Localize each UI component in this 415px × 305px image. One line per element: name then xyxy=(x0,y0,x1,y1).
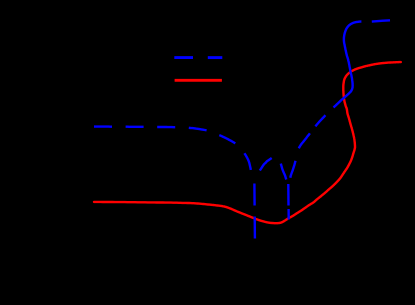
blue dashed curve xyxy=(94,20,390,238)
legend blue dashed sample xyxy=(174,56,222,59)
red solid curve xyxy=(94,62,401,223)
legend red solid sample xyxy=(175,79,222,82)
